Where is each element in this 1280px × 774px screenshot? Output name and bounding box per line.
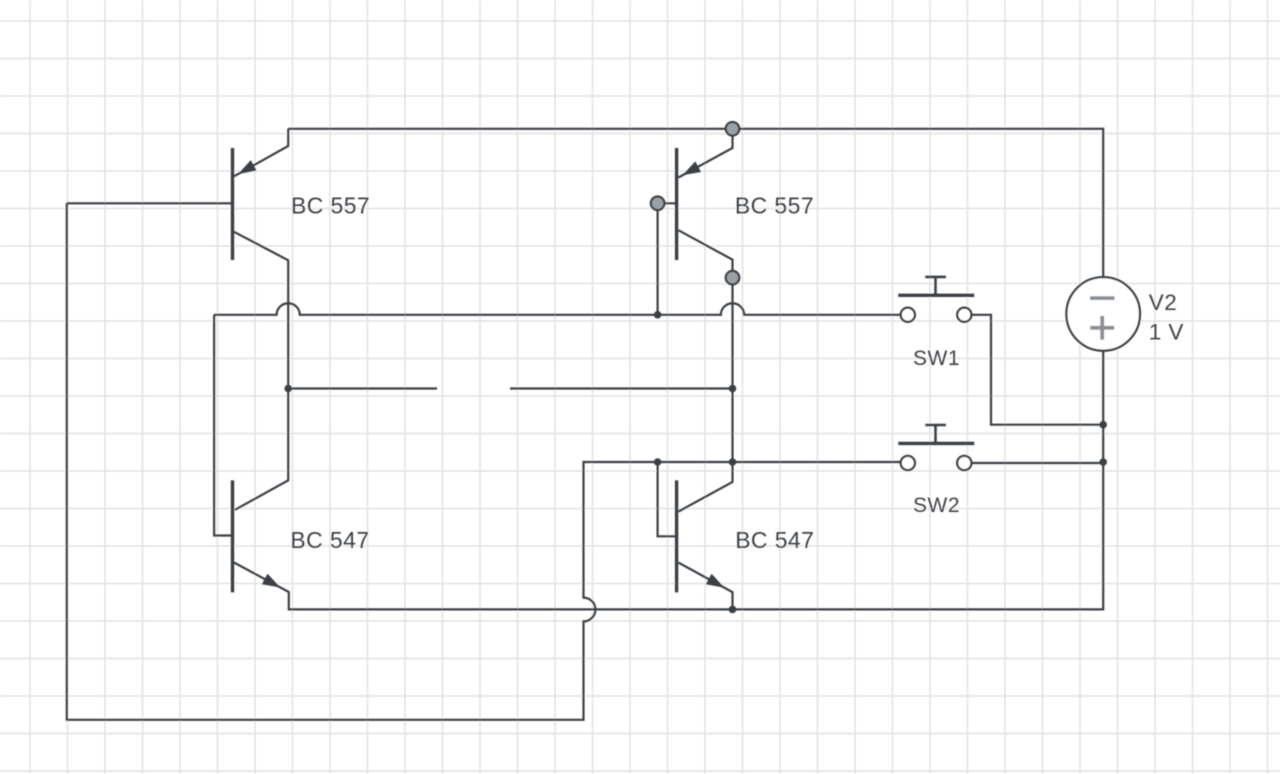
svg-text:BC 547: BC 547 <box>290 527 369 553</box>
svg-text:V2: V2 <box>1149 290 1177 315</box>
svg-text:BC 557: BC 557 <box>291 193 370 219</box>
svg-text:SW1: SW1 <box>913 347 960 370</box>
svg-text:BC 557: BC 557 <box>735 193 814 219</box>
svg-text:1 V: 1 V <box>1149 319 1184 344</box>
svg-text:SW2: SW2 <box>913 494 960 517</box>
svg-text:BC 547: BC 547 <box>735 527 814 553</box>
